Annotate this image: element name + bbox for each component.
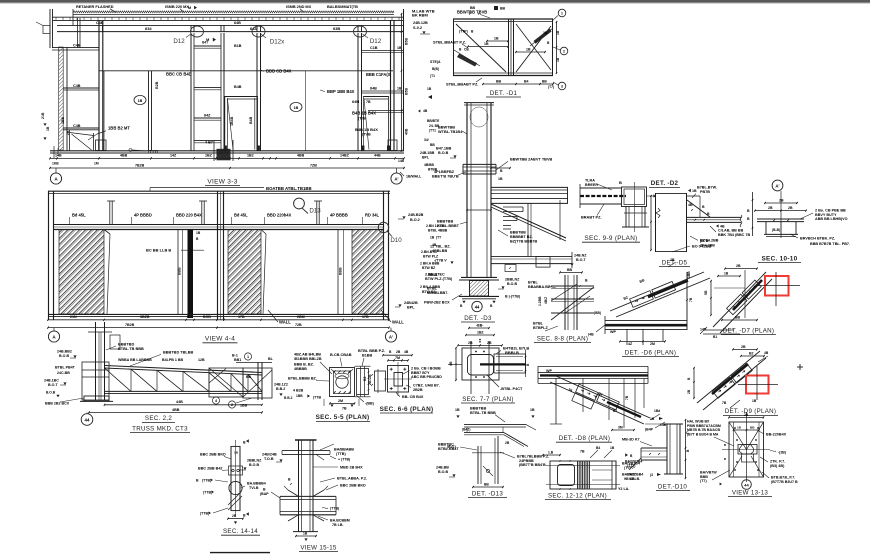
svg-text:D12: D12 [370, 38, 382, 45]
svg-text:1B: 1B [303, 531, 308, 535]
svg-text:BBET'B 7BU'B: BBET'B 7BU'B [432, 174, 459, 178]
svg-text:BBD 220 B4X: BBD 220 B4X [176, 212, 202, 217]
sec 10-10 grid circle A [772, 180, 783, 191]
svg-text:PBW BBB7A7ACBM: PBW BBB7A7ACBM [687, 424, 721, 428]
svg-text:4B/BB: 4B/BB [424, 163, 435, 167]
svg-text:3: 3 [561, 85, 563, 89]
sec 14-14 big circle [229, 481, 242, 494]
door opening D12x leaf [224, 96, 226, 150]
svg-text:BBWTBB: BBWTBB [438, 125, 455, 129]
svg-text:B.O.B: B.O.B [46, 390, 56, 394]
svg-text:(T77): (T77) [627, 464, 635, 468]
svg-text:BBBTBD TBLBB: BBBTBD TBLBB [163, 351, 194, 355]
svg-text:SEC. 8-8 (PLAN): SEC. 8-8 (PLAN) [537, 335, 589, 342]
svg-text:2B: 2B [779, 198, 784, 202]
sec 6-6 top dimension [388, 359, 408, 361]
det d1 right cell dims [516, 51, 545, 53]
svg-text:STBL.BBABT P.Z.: STBL.BBABT P.Z. [433, 39, 466, 44]
svg-text:5B: 5B [704, 290, 708, 295]
svg-text:(TTB): (TTB) [202, 478, 211, 482]
svg-text:B1: B1 [713, 335, 717, 339]
svg-text:DET. -D2: DET. -D2 [651, 180, 679, 187]
svg-text:(4B: (4B [588, 332, 594, 336]
sec 7-7 top dims [466, 334, 494, 336]
detail D3 column and base [424, 103, 587, 330]
svg-text:2B: 2B [741, 345, 746, 349]
svg-text:(T7): (T7) [548, 85, 554, 89]
door circle D10 [378, 222, 388, 232]
svg-text:2BBLNZ: 2BBLNZ [247, 458, 262, 462]
baseline of view 3-3 [50, 150, 404, 152]
svg-text:B B.2: B B.2 [284, 396, 293, 400]
view 4-4 elevation [47, 186, 447, 343]
door opening 1 view 4-4 [104, 230, 110, 235]
det d8 diagonal member [556, 376, 650, 418]
svg-text:44: 44 [85, 418, 90, 423]
svg-text:44: 44 [475, 305, 480, 310]
section 8-8 plan [528, 268, 601, 343]
sec 6-6 centerlines [397, 362, 399, 396]
svg-text:4B: 4B [764, 351, 769, 355]
svg-text:B.O.B: B.O.B [249, 463, 259, 467]
svg-text:BBB CB B4X: BBB CB B4X [266, 69, 292, 74]
svg-text:BTBL.BBBT: BTBL.BBBT [437, 224, 460, 228]
svg-text:B4B: B4B [234, 85, 242, 89]
svg-text:B47.1BB: B47.1BB [436, 146, 452, 150]
sec 14-14 bottom dim [228, 518, 243, 520]
detail D8 plan [538, 366, 667, 442]
svg-text:72B: 72B [295, 323, 302, 327]
svg-text:7B4.2BB: 7B4.2BB [700, 243, 715, 247]
sec 12-12 right portion [611, 461, 613, 489]
sec 14-14 inner bolt box [229, 466, 243, 475]
det d1 center divider [508, 19, 510, 76]
sec 7-7 inner tube rounded [468, 355, 494, 376]
svg-text:S-0.2: S-0.2 [413, 26, 422, 30]
sec 8-8 bottom leader [545, 326, 558, 331]
svg-text:1B: 1B [294, 106, 299, 110]
svg-text:1KB: 1KB [52, 162, 59, 166]
svg-text:24B.BB: 24B.BB [436, 465, 449, 469]
svg-text:7B: 7B [342, 406, 347, 410]
door frame D12 right side [357, 33, 359, 151]
svg-text:7B2B: 7B2B [125, 323, 135, 327]
section 5-5 plan [288, 349, 385, 422]
svg-text:B4: B4 [524, 79, 529, 83]
svg-text:4BZ.AB B4LBB: 4BZ.AB B4LBB [294, 353, 321, 357]
sec 7-7 bolt dots [475, 351, 477, 353]
sec 7-7 left dim [455, 348, 457, 380]
svg-text:B.O.B: B.O.B [59, 354, 69, 358]
dimension row 1 view 4-4 [48, 319, 389, 321]
svg-text:64B: 64B [234, 21, 241, 25]
svg-text:BZ(T7B BBB7B: BZ(T7B BBB7B [510, 240, 537, 244]
grid marker circle A left [50, 173, 61, 184]
svg-text:B.O.T: B.O.T [48, 383, 58, 387]
svg-text:BBBTBB: BBBTBB [437, 219, 453, 223]
det d7 thick band [733, 280, 762, 310]
svg-text:(T1: (T1 [430, 74, 435, 78]
door D12 right swing circle [354, 26, 367, 37]
det d1 left cell diagonal [456, 24, 506, 72]
svg-text:CB: CB [464, 48, 469, 52]
svg-text:1BB: 1BB [61, 117, 65, 124]
svg-text:2B: 2B [66, 130, 70, 135]
svg-text:2: 2 [231, 403, 233, 407]
svg-text:B.CB.CBAB: B.CB.CBAB [330, 353, 352, 357]
det d10 column [666, 424, 668, 474]
svg-text:DET. -D8 (PLAN): DET. -D8 (PLAN) [559, 435, 611, 442]
det d5 beam bolts [694, 219, 696, 221]
svg-text:2 Bo. CB I BOBB: 2 Bo. CB I BOBB [411, 366, 441, 370]
svg-text:MBD 2B B4X: MBD 2B B4X [340, 465, 363, 469]
svg-text:BTBL: BTBL [533, 321, 544, 325]
svg-text:BB: BB [484, 482, 489, 486]
det d10 bracket bolts [649, 453, 651, 455]
svg-text:BBB 2B2 BCX: BBB 2B2 BCX [45, 401, 70, 405]
det d6 top dims [668, 262, 676, 267]
svg-text:1B: 1B [455, 408, 460, 412]
svg-text:2 Bo. CB PBE BB: 2 Bo. CB PBE BB [815, 208, 846, 212]
hatched wall panel 3 [352, 230, 384, 315]
svg-text:BB: BB [470, 6, 476, 10]
svg-text:TLRA: TLRA [585, 178, 595, 182]
det d10 left bracket [641, 447, 667, 449]
door D12 swing circle [191, 26, 204, 37]
svg-text:7B: 7B [625, 395, 629, 400]
svg-text:BK RBM: BK RBM [412, 13, 429, 18]
svg-text:21N: 21N [70, 315, 77, 319]
detail D10 [622, 417, 690, 491]
det d7 red highlight box [765, 276, 789, 296]
svg-text:(T7P): (T7P) [459, 30, 468, 34]
svg-text:1.B: 1.B [548, 450, 554, 454]
svg-text:(TTB): (TTB) [200, 511, 209, 515]
svg-text:BBB B. BZ.: BBB B. BZ. [294, 362, 314, 366]
truss dimension row 1 [105, 404, 263, 406]
svg-text:1B: 1B [543, 31, 548, 35]
svg-text:1B2: 1B2 [247, 154, 254, 158]
svg-text:A': A' [775, 184, 779, 189]
svg-text:BBC 2BB B42: BBC 2BB B42 [198, 466, 223, 470]
svg-text:4BBLBB: 4BBLBB [432, 249, 447, 253]
svg-text:14Z: 14Z [170, 154, 177, 158]
svg-text:BL: BL [268, 357, 274, 361]
circled 1 marker truss [244, 353, 251, 360]
svg-text:BB-220B4X: BB-220B4X [766, 432, 787, 436]
plus mark far right [797, 366, 803, 368]
svg-text:DET. -D9 (PLAN): DET. -D9 (PLAN) [725, 408, 777, 415]
detail D1 bracing [433, 6, 568, 97]
svg-text:BTBL.BBBB BZ.: BTBL.BBBB BZ. [288, 376, 317, 380]
svg-text:SEC. 2,2: SEC. 2,2 [145, 415, 172, 422]
det d3 lower beam [491, 256, 572, 258]
dimension row 2 view 3-3 [50, 167, 404, 169]
grid circle A view 4-4 left [48, 331, 59, 342]
svg-text:1B: 1B [46, 126, 50, 131]
truss column base [84, 396, 109, 401]
det d7 bottom dims [722, 319, 757, 321]
det d3 splice dim [491, 167, 510, 169]
door opening 2 view 4-4 [261, 230, 266, 235]
svg-text:4P BBBD: 4P BBBD [134, 212, 152, 217]
roof beam band [57, 24, 404, 26]
svg-text:BTBL 4BBB: BTBL 4BBB [428, 228, 448, 232]
svg-text:2BBLNZ: 2BBLNZ [505, 277, 520, 281]
sec 5-5 right side plate [357, 369, 369, 395]
svg-text:1B: 1B [494, 36, 499, 40]
view 15-15 upper flange leader [320, 444, 334, 450]
sec 8-8 vertical member [564, 275, 566, 330]
svg-text:DET. -D13: DET. -D13 [472, 490, 503, 497]
svg-text:2B2B: 2B2B [413, 388, 423, 392]
left small door leaf [69, 130, 71, 151]
view 4-4 top chord [48, 190, 390, 192]
column C1 with footing [98, 20, 100, 151]
svg-text:MB7B B.7B B3/ACB: MB7B B.7B B3/ACB [687, 428, 720, 432]
det d7 top dims [725, 268, 757, 270]
svg-text:BTBL.ABBA. P.2.: BTBL.ABBA. P.2. [337, 476, 367, 480]
view 15-15 upper flange [282, 450, 330, 452]
svg-text:BBBLB: BBBLB [505, 350, 519, 355]
svg-text:BBB: BBB [700, 475, 708, 479]
sec 6-6 corner bolts [390, 368, 393, 370]
svg-text:STE(A: STE(A [430, 60, 441, 64]
door frame right of D12x [256, 33, 258, 151]
svg-text:1B: 1B [692, 189, 697, 193]
svg-text:1B: 1B [530, 408, 535, 412]
det d7 diagonal member [713, 272, 766, 327]
det d6 diagonal splice plates [630, 281, 676, 307]
det d1 right cell diagonal [516, 26, 551, 72]
svg-text:BA.BCBBM: BA.BCBBM [330, 518, 350, 522]
svg-text:PB7B: PB7B [700, 190, 710, 194]
svg-text:24PBBB: 24PBBB [519, 459, 534, 463]
svg-text:17B: 17B [362, 315, 369, 319]
svg-text:BRABT PZ.: BRABT PZ. [581, 215, 602, 219]
svg-text:(B4P: (B4P [645, 427, 654, 431]
svg-text:C7BZ. UAB B7.: C7BZ. UAB B7. [413, 383, 440, 387]
svg-text:4BBBB: 4BBBB [294, 367, 307, 371]
svg-text:WALL: WALL [279, 320, 291, 325]
sec 5-5 inner diagonals [331, 369, 337, 375]
svg-text:2B: 2B [487, 341, 492, 345]
det d13 bend haunch [504, 433, 528, 447]
truss left column upper part [95, 322, 97, 400]
view 15-15 crossing beam [280, 495, 336, 497]
det d6 bottom dim [620, 340, 665, 342]
svg-text:BBBTBD: BBBTBD [118, 343, 134, 347]
svg-text:Y2 LA.: Y2 LA. [618, 487, 629, 491]
det d9 diagonal member [697, 351, 760, 403]
svg-text:SEC. 14-14: SEC. 14-14 [223, 528, 258, 535]
right ledger rails [362, 49, 404, 51]
sec 6-6 outer plate [388, 366, 409, 393]
svg-text:B4LPB 1 BB: B4LPB 1 BB [162, 358, 184, 362]
svg-text:DET. -D1: DET. -D1 [490, 90, 518, 97]
svg-text:7B: 7B [366, 100, 371, 104]
det d9 thick band [712, 364, 748, 394]
view 13-13 grid circle 44 [742, 480, 752, 490]
left wall hatched strip [59, 47, 64, 150]
svg-text:BPL: BPL [407, 306, 415, 310]
lintel beam band view 4-4 [54, 224, 383, 226]
det d6 beam [605, 320, 687, 322]
svg-text:1B: 1B [526, 47, 531, 51]
det d13 vertical post [477, 446, 479, 484]
det d6 right post [686, 272, 688, 330]
svg-text:BTBPLZ: BTBPLZ [533, 326, 548, 330]
svg-text:1B: 1B [556, 57, 560, 62]
sec 7-7 through verticals [470, 341, 472, 394]
svg-text:WTBL.TB1B4: WTBL.TB1B4 [438, 130, 463, 134]
svg-text:2B: 2B [505, 441, 510, 445]
det d5 beam to right [687, 216, 741, 218]
svg-text:BTW PLZ.(T7B): BTW PLZ.(T7B) [425, 277, 453, 281]
det d3 hanger vertical [527, 203, 529, 256]
section 6-6 plan [363, 350, 442, 413]
det d8 beam end verticals [537, 366, 539, 383]
det d3 small plate symbol [505, 265, 516, 272]
det d1 left cell dims [487, 40, 508, 42]
svg-text:VIEW 4-4: VIEW 4-4 [205, 336, 235, 343]
det d9 red highlight box [746, 376, 769, 394]
svg-text:BA.BBBB4: BA.BBBB4 [247, 481, 266, 485]
sec 12-12 outer rect [550, 461, 616, 489]
svg-text:B(B): B(B) [432, 67, 439, 71]
svg-text:BB/BTE: BB/BTE [427, 119, 440, 123]
right vertical dimension line view 3-3 [401, 14, 403, 151]
right column [390, 20, 392, 151]
svg-text:BA7ZBB4: BA7ZBB4 [627, 472, 643, 476]
svg-text:WP: WP [610, 330, 617, 334]
view 13-13 inner lines [733, 422, 735, 477]
svg-text:1: 1 [247, 355, 249, 359]
det d9 top dims [733, 348, 757, 350]
svg-text:12 TBL. BZ.: 12 TBL. BZ. [430, 244, 451, 248]
truss dimension row 2 [89, 411, 262, 413]
svg-text:1B2: 1B2 [477, 330, 483, 334]
svg-text:WALL: WALL [392, 320, 404, 325]
svg-text:4B: 4B [449, 361, 453, 366]
svg-text:+ (TTB): + (TTB) [338, 457, 350, 461]
door jamb footings [224, 146, 227, 151]
svg-text:C4B: C4B [73, 124, 81, 128]
det d6 diagonal thick band [648, 281, 688, 298]
svg-text:ISMB 220 MX: ISMB 220 MX [165, 5, 189, 9]
svg-text:B1B: B1B [234, 44, 242, 48]
detail D9 plan [687, 345, 778, 416]
det d6 diagonal member [610, 272, 704, 311]
sec 12-12 vertical shim stack [577, 462, 579, 489]
svg-text:BALBSMMAT(TB: BALBSMMAT(TB [327, 5, 358, 9]
svg-text:C/LAB, BB BB: C/LAB, BB BB [718, 228, 744, 232]
det d1 bottom dim [483, 83, 553, 85]
det d3 roof beam lower [491, 197, 568, 199]
sec 7-7 thick weld line [480, 363, 526, 365]
sec 6-6 inner tube [394, 373, 403, 387]
svg-text:1: 1 [561, 12, 563, 16]
svg-text:64?: 64? [202, 41, 209, 45]
right column view 4-4 [383, 191, 385, 320]
svg-text:24B/24B: 24B/24B [262, 452, 277, 456]
eaves beam band [52, 16, 404, 18]
svg-text:DET. -D6 (PLAN): DET. -D6 (PLAN) [625, 349, 677, 356]
svg-text:BBB7 B7Y: BBB7 B7Y [411, 371, 430, 375]
svg-text:DET.-D10: DET.-D10 [658, 483, 687, 490]
svg-text:ABB BB LBHB(VO: ABB BB LBHB(VO [815, 217, 848, 221]
sec 10-10 left member [752, 192, 754, 236]
svg-text:(BB): (BB) [594, 311, 601, 315]
svg-text:1M: 1M [94, 162, 99, 166]
grid marker circle A right [391, 173, 402, 184]
svg-text:12B: 12B [198, 358, 205, 362]
svg-text:WP: WP [546, 369, 553, 373]
svg-text:63B: 63B [333, 26, 340, 31]
svg-text:BRVBCH BTBK. PZ.: BRVBCH BTBK. PZ. [800, 236, 835, 240]
floor level ticks left [53, 146, 55, 158]
svg-text:BTBL: BTBL [427, 286, 438, 290]
svg-text:B-1: B-1 [232, 353, 238, 357]
section 12-12 plan [542, 446, 640, 500]
det d7 cross through red box [775, 272, 777, 306]
svg-text:4B: 4B [404, 350, 409, 354]
svg-text:34/: 34/ [424, 138, 429, 142]
svg-text:(3: (3 [650, 473, 653, 477]
view 15-15 gussets [288, 490, 299, 496]
sec 10-10 bolts [773, 220, 775, 222]
right door leaf [363, 96, 365, 150]
sec 7-7 right plate [494, 354, 526, 373]
svg-text:4PLBBFBZ: 4PLBBFBZ [434, 170, 455, 174]
truss right end connection box [209, 368, 243, 397]
middle column view 4-4 [217, 191, 219, 320]
svg-text:STBL.BBABT PZ.: STBL.BBABT PZ. [446, 81, 479, 86]
sec 8-8 diagonals [551, 287, 594, 320]
svg-text:B2: B2 [749, 351, 754, 355]
svg-text:TRUSS MKD. CT3: TRUSS MKD. CT3 [132, 425, 188, 432]
svg-text:RD 34L: RD 34L [365, 212, 380, 217]
svg-text:7B: 7B [689, 297, 693, 302]
view 15-15 column elevation [260, 440, 367, 552]
svg-text:4BB: 4BB [297, 154, 305, 158]
det d5 column break symbol [656, 208, 660, 218]
det d8 splice plates rotated [572, 384, 620, 418]
svg-text:BB: BB [496, 79, 502, 83]
svg-text:2B: 2B [670, 258, 675, 262]
svg-text:ISMB 2ND MX: ISMB 2ND MX [286, 5, 312, 9]
svg-text:BTBL.TB BBB: BTBL.TB BBB [118, 347, 144, 351]
svg-text:BBB: BBB [178, 267, 182, 275]
det d3 base plates [461, 276, 497, 278]
svg-text:(BB7T'B BB4'B: (BB7T'B BB4'B [519, 463, 546, 467]
svg-text:(B4Z): (B4Z) [462, 427, 470, 431]
svg-text:BB: BB [567, 268, 573, 272]
panel center line [305, 71, 307, 151]
svg-text:1BB B2 MT: 1BB B2 MT [108, 126, 130, 131]
svg-text:BB: BB [750, 425, 755, 429]
svg-text:14B: 14B [55, 154, 62, 158]
svg-text:BBC CB B4D: BBC CB B4D [166, 71, 192, 76]
det d1 right dim line [556, 22, 558, 73]
svg-text:VIEW 3-3: VIEW 3-3 [207, 178, 237, 185]
svg-text:(TTB: (TTB [313, 396, 321, 400]
svg-text:BBBBBT BZ.: BBBBBT BZ. [510, 235, 533, 239]
det d13 post bolts [486, 469, 489, 472]
svg-text:BOATBB ATBL.TB1BB: BOATBB ATBL.TB1BB [266, 186, 312, 191]
long underline segment bottom [210, 552, 270, 554]
section 9-9 plan [580, 178, 656, 242]
